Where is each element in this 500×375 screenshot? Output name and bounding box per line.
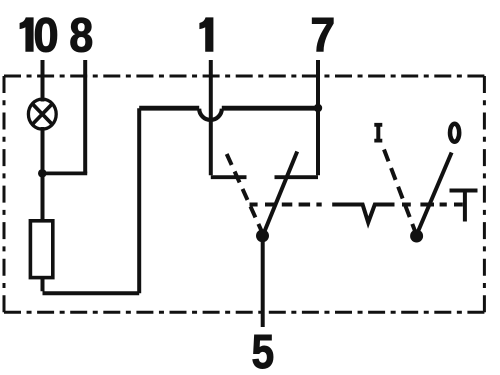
mechanical linkage dashed (right of spring) [402, 203, 463, 207]
wire terminal 1 down [209, 60, 213, 175]
resistor R1 [30, 221, 52, 278]
svg-text:7: 7 [310, 8, 335, 62]
switch S2 indicator (position 0, solid) [417, 153, 452, 236]
switch S1 moving contact (position 0, solid) [263, 152, 297, 236]
enclosure border (dash-dot) [4, 76, 484, 312]
mechanical linkage dashed (left of spring) [250, 203, 341, 207]
wire lamp to junction A [41, 127, 45, 175]
spring symbol [340, 205, 395, 223]
svg-text:0: 0 [33, 8, 58, 61]
terminal label 10 [20, 18, 33, 51]
wire pivot to terminal 5 [261, 236, 265, 328]
junction B dot [314, 104, 322, 112]
switch S1 pivot dot [256, 229, 269, 242]
position indicator label I [374, 123, 382, 143]
svg-text:5: 5 [251, 326, 274, 375]
wire resistor to riser [43, 108, 140, 293]
position indicator label 0 [450, 124, 459, 142]
switch S1 moving contact (position I, dashed) [227, 154, 264, 235]
wire 8 to junction A [43, 171, 88, 175]
detent symbol T [450, 191, 478, 222]
wire hop over terminal-1 wire [199, 109, 222, 120]
wire riser to hop [139, 106, 199, 111]
terminal label 1 [200, 18, 213, 51]
wire terminal 7 down [316, 60, 320, 175]
wire hop to junction B [222, 106, 318, 111]
fixed contact bar right (terminal 7) [275, 175, 319, 179]
switch S2 indicator (position I, dashed) [384, 150, 417, 236]
fixed contact bar left (terminal 1) [211, 175, 247, 179]
lamp E1 [28, 99, 56, 129]
wire junction A to resistor [41, 173, 45, 221]
switch S2 pivot dot [410, 230, 423, 243]
junction A dot [38, 169, 47, 178]
wire terminal 10 to lamp [41, 60, 45, 102]
svg-text:8: 8 [69, 8, 93, 62]
wire terminal 8 down [83, 60, 87, 173]
